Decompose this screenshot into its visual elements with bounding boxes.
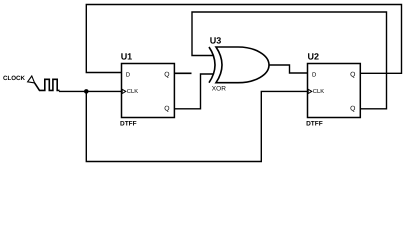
svg-text:Q: Q <box>350 106 355 113</box>
svg-text:CLK: CLK <box>127 88 138 95</box>
svg-text:U3: U3 <box>210 36 222 46</box>
svg-text:CLOCK: CLOCK <box>3 75 26 82</box>
svg-text:XOR: XOR <box>212 85 226 92</box>
svg-text:DTFF: DTFF <box>306 120 323 127</box>
svg-text:CLK: CLK <box>313 88 324 95</box>
svg-text:Q: Q <box>164 106 169 113</box>
svg-text:U1: U1 <box>121 52 133 62</box>
svg-text:DTFF: DTFF <box>120 120 137 127</box>
svg-text:Q: Q <box>164 71 169 78</box>
svg-text:Q: Q <box>350 71 355 78</box>
svg-text:D: D <box>126 71 131 78</box>
svg-text:U2: U2 <box>308 51 320 61</box>
svg-text:D: D <box>312 71 317 78</box>
